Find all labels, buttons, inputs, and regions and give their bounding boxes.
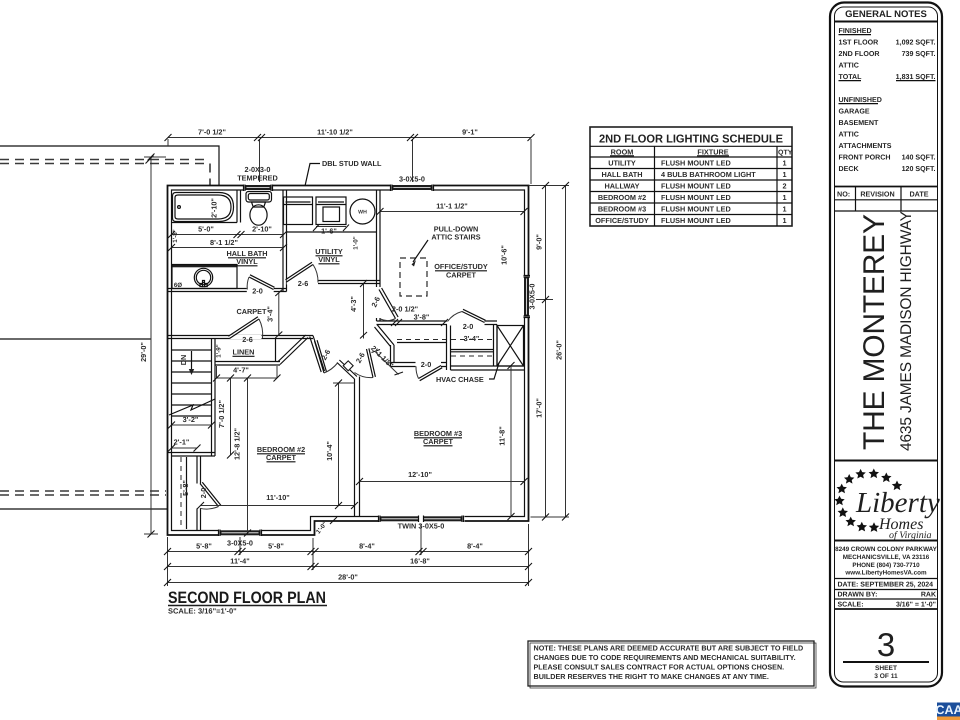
svg-text:2'-1": 2'-1"	[174, 438, 190, 447]
svg-text:3'-4": 3'-4"	[266, 306, 275, 322]
svg-text:140 SQFT.: 140 SQFT.	[902, 154, 936, 162]
general notes header	[835, 9, 938, 22]
svg-text:1: 1	[782, 159, 786, 168]
svg-text:4635 JAMES MADISON HIGHWAY: 4635 JAMES MADISON HIGHWAY	[898, 211, 915, 451]
svg-text:8'-4": 8'-4"	[467, 542, 483, 551]
svg-text:ATTIC: ATTIC	[839, 131, 859, 139]
closet B / chase south wall	[451, 366, 525, 370]
toilet	[246, 192, 272, 226]
text office door dims	[392, 305, 429, 322]
dimension hall 4'-3	[349, 280, 367, 339]
svg-text:2-0: 2-0	[463, 322, 474, 331]
svg-text:UNFINISHED: UNFINISHED	[839, 96, 882, 104]
utility counter edge	[287, 231, 377, 233]
svg-text:1: 1	[782, 216, 786, 225]
svg-text:12'-10": 12'-10"	[408, 470, 432, 479]
door bedroom2 2-6	[315, 340, 338, 373]
window 2-0X3-0 tempered (top wall)	[244, 184, 273, 192]
svg-text:1ST FLOOR: 1ST FLOOR	[839, 39, 879, 47]
text hvac chase with leader	[436, 363, 499, 384]
svg-text:1'-8": 1'-8"	[172, 229, 179, 242]
svg-text:2-6: 2-6	[242, 335, 253, 344]
svg-text:CARPET: CARPET	[446, 271, 477, 280]
svg-text:BEDROOM #3: BEDROOM #3	[598, 205, 646, 214]
svg-text:GENERAL NOTES: GENERAL NOTES	[845, 9, 927, 20]
svg-text:2'-10": 2'-10"	[210, 198, 219, 218]
wall stair south	[168, 453, 216, 457]
wall bedroom divider vertical	[355, 377, 360, 517]
svg-text:WH: WH	[358, 210, 367, 216]
svg-text:www.LibertyHomesVA.com: www.LibertyHomesVA.com	[844, 570, 927, 577]
closet A south wall	[391, 363, 447, 367]
door bedroom3 2-6	[355, 348, 376, 377]
svg-text:CARPET: CARPET	[237, 307, 268, 316]
wall utility south	[318, 281, 380, 284]
svg-text:QTY: QTY	[778, 150, 793, 157]
svg-text:120 SQFT.: 120 SQFT.	[902, 165, 936, 173]
svg-text:11'-10": 11'-10"	[266, 493, 289, 502]
text bedroom 2	[257, 445, 305, 462]
sheet number	[843, 626, 929, 680]
svg-text:FRONT PORCH: FRONT PORCH	[839, 154, 891, 162]
text 2-0X3-0 tempered	[237, 165, 278, 183]
svg-text:BASEMENT: BASEMENT	[839, 119, 879, 127]
note box	[528, 641, 816, 688]
svg-text:GARAGE: GARAGE	[839, 108, 870, 116]
svg-text:9'-1": 9'-1"	[462, 128, 478, 137]
svg-text:2-6: 2-6	[298, 279, 309, 288]
svg-text:CAA: CAA	[935, 703, 960, 717]
svg-text:8'-1 1/2": 8'-1 1/2"	[210, 238, 238, 247]
text bedroom 3	[414, 429, 462, 446]
svg-text:FLUSH MOUNT LED: FLUSH MOUNT LED	[661, 216, 731, 225]
attic stairs dashed box	[400, 258, 427, 296]
svg-text:6Ø: 6Ø	[174, 282, 182, 289]
hvac chase box with X	[497, 326, 524, 367]
liberty homes logo	[834, 461, 940, 542]
svg-text:SCALE: 3/16"=1'-0": SCALE: 3/16"=1'-0"	[168, 607, 237, 616]
project name vertical	[858, 211, 915, 451]
svg-text:10'-4": 10'-4"	[325, 441, 334, 461]
svg-text:7'-0 1/2": 7'-0 1/2"	[198, 128, 226, 137]
text door labels hall	[252, 279, 382, 309]
svg-text:Liberty: Liberty	[855, 487, 940, 519]
closet B shelf and rod	[451, 340, 493, 357]
CAA watermark logo	[935, 703, 960, 720]
exterior wall inner face	[172, 190, 525, 531]
text linen	[216, 335, 255, 358]
svg-text:3-0X5-0: 3-0X5-0	[528, 284, 537, 310]
svg-text:10'-6": 10'-6"	[500, 245, 509, 265]
dimension step 1'-0	[315, 517, 337, 535]
svg-text:1,831 SQFT.: 1,831 SQFT.	[896, 73, 936, 81]
tub platform edge	[172, 222, 238, 224]
svg-text:2'-10": 2'-10"	[252, 225, 272, 234]
lighting schedule table	[590, 127, 793, 226]
svg-text:3'-8": 3'-8"	[414, 313, 430, 322]
door linen 2-6	[228, 317, 262, 339]
svg-text:1,092 SQFT.: 1,092 SQFT.	[896, 39, 936, 47]
svg-text:29'-0": 29'-0"	[139, 342, 148, 362]
svg-text:BEDROOM #2: BEDROOM #2	[598, 193, 646, 202]
svg-text:DBL STUD WALL: DBL STUD WALL	[322, 159, 382, 168]
svg-text:5'-8": 5'-8"	[268, 542, 284, 551]
svg-text:1'-9": 1'-9"	[216, 344, 223, 357]
svg-text:4'-3": 4'-3"	[349, 296, 358, 312]
svg-text:MECHANICSVILLE, VA 23116: MECHANICSVILLE, VA 23116	[843, 554, 930, 561]
svg-text:HALLWAY: HALLWAY	[604, 182, 639, 191]
roof dashed outline upper left	[0, 156, 210, 186]
svg-text:3'-2": 3'-2"	[183, 415, 199, 424]
dimension 1'-6 dryer	[313, 225, 360, 250]
svg-text:ATTIC: ATTIC	[839, 62, 859, 70]
dimension bedroom3 11'-8	[498, 362, 515, 520]
svg-text:FIXTURE: FIXTURE	[697, 148, 728, 157]
svg-text:7'-0 1/2": 7'-0 1/2"	[217, 400, 226, 428]
dimension bath 5'-0 / 2'-10 / 8'-1 1/2	[168, 225, 287, 252]
door utility 2-6	[286, 262, 319, 284]
svg-text:3-0X5-0: 3-0X5-0	[227, 539, 253, 548]
address block	[835, 541, 938, 577]
title block border	[830, 3, 942, 687]
dimension linen 4'-7	[213, 366, 281, 382]
svg-text:THE MONTEREY: THE MONTEREY	[858, 212, 891, 450]
wall jamb notch between bedroom doors	[337, 360, 357, 379]
svg-text:4 BULB BATHROOM LIGHT: 4 BULB BATHROOM LIGHT	[661, 170, 756, 179]
wall stair east	[212, 339, 216, 457]
svg-text:739 SQFT.: 739 SQFT.	[902, 50, 936, 58]
wall hall bath south	[168, 289, 287, 292]
closet A west diagonal wall	[375, 325, 395, 367]
door bottom closet 2-0	[196, 482, 221, 509]
svg-text:LINEN: LINEN	[233, 348, 255, 357]
svg-text:1: 1	[782, 193, 786, 202]
svg-text:FLUSH MOUNT LED: FLUSH MOUNT LED	[661, 193, 731, 202]
svg-text:1: 1	[782, 205, 786, 214]
svg-text:CHANGES DUE TO CODE REQUIREMEN: CHANGES DUE TO CODE REQUIREMENTS AND MEC…	[534, 653, 796, 662]
svg-text:SCALE:: SCALE:	[838, 602, 864, 609]
chase west wall	[494, 325, 498, 367]
date drawn scale rows	[835, 579, 938, 610]
svg-text:REVISION: REVISION	[860, 190, 894, 199]
svg-text:DATE: SEPTEMBER 25, 2024: DATE: SEPTEMBER 25, 2024	[838, 582, 934, 589]
text dbl stud wall with leader	[305, 159, 382, 186]
closet A/B divider wall	[447, 325, 451, 371]
dimension hall 3'-4	[266, 290, 283, 339]
window 3-0X5-0 (bottom left wall)	[219, 529, 262, 537]
svg-text:8'-4": 8'-4"	[359, 542, 375, 551]
door office 2-6	[376, 288, 399, 321]
wall hall diagonal	[310, 336, 325, 373]
dimension 2'-1 1/8 diagonal	[369, 344, 403, 375]
vanity with sink	[172, 265, 238, 289]
svg-text:SECOND FLOOR PLAN: SECOND FLOOR PLAN	[168, 589, 326, 607]
washer	[284, 197, 313, 225]
door hall bath 2-0	[247, 275, 275, 293]
linen closet walls	[215, 335, 308, 365]
dimension 12'-8 1/2 vertical	[233, 375, 252, 537]
svg-text:3 OF 11: 3 OF 11	[874, 673, 898, 680]
svg-text:HALL BATH: HALL BATH	[601, 170, 642, 179]
wall bottom closet east	[197, 456, 201, 531]
stair treads	[172, 350, 212, 416]
wall hall bath / utility divider	[283, 190, 287, 292]
svg-text:8249 CROWN COLONY PARKWAY: 8249 CROWN COLONY PARKWAY	[835, 546, 938, 553]
svg-text:3/16" = 1'-0": 3/16" = 1'-0"	[896, 601, 936, 609]
svg-text:CARPET: CARPET	[266, 453, 297, 462]
dimension right 9'-0 / 17'-0 / 26'-0	[528, 182, 570, 521]
svg-text:1: 1	[782, 170, 786, 179]
svg-text:ATTIC STAIRS: ATTIC STAIRS	[431, 233, 480, 242]
exterior wall outer face	[168, 186, 529, 536]
wall utility / office divider	[377, 190, 381, 321]
roof line upper left	[0, 146, 219, 186]
svg-text:DN: DN	[179, 355, 188, 366]
svg-text:BUILDER RESERVES THE RIGHT TO: BUILDER RESERVES THE RIGHT TO MAKE CHANG…	[534, 672, 769, 681]
svg-text:3-0X5-0: 3-0X5-0	[399, 175, 425, 184]
svg-text:12'-8 1/2": 12'-8 1/2"	[233, 428, 242, 460]
text window labels bottom	[227, 522, 444, 548]
dimension rows below plan	[164, 524, 532, 586]
svg-text:2ND FLOOR LIGHTING SCHEDULE: 2ND FLOOR LIGHTING SCHEDULE	[599, 134, 783, 146]
svg-text:PLEASE CONSULT SALES CONTRACT: PLEASE CONSULT SALES CONTRACT FOR ACTUAL…	[534, 663, 785, 672]
svg-text:TOTAL: TOTAL	[839, 73, 863, 81]
svg-text:NOTE: THESE PLANS ARE DEEMED A: NOTE: THESE PLANS ARE DEEMED ACCURATE BU…	[534, 644, 804, 653]
svg-text:PHONE (804) 730-7710: PHONE (804) 730-7710	[852, 562, 920, 569]
dimension 3'-8 ticks on office wall	[391, 319, 448, 326]
dimension stairs 2'-1	[168, 438, 201, 452]
roof line lower left	[0, 508, 168, 510]
stair DN arrow	[189, 351, 194, 375]
svg-text:SHEET: SHEET	[875, 665, 897, 672]
svg-text:TWIN 3-0X5-0: TWIN 3-0X5-0	[398, 522, 445, 531]
window 3-0X5-0 (right wall)	[523, 276, 531, 318]
svg-text:RAK: RAK	[921, 592, 936, 599]
svg-text:DECK: DECK	[839, 165, 860, 173]
roof dashed outline lower left	[0, 491, 166, 495]
svg-text:NO:: NO:	[837, 190, 850, 199]
revision header row	[835, 187, 938, 212]
svg-text:11'-4": 11'-4"	[230, 557, 249, 566]
dimension left 29ft	[139, 154, 166, 538]
svg-text:DATE: DATE	[909, 190, 928, 199]
svg-text:5'-0": 5'-0"	[198, 225, 214, 234]
dimension office 11'-1 1/2	[377, 202, 528, 216]
svg-text:1'-0": 1'-0"	[353, 236, 360, 249]
closet A rod line	[397, 342, 446, 344]
svg-text:FINISHED: FINISHED	[839, 27, 872, 35]
closet rod dashed (bottom-left closet)	[180, 457, 182, 529]
svg-text:11'-1 1/2": 11'-1 1/2"	[436, 202, 468, 211]
svg-text:4'-7": 4'-7"	[233, 366, 249, 375]
svg-text:16'-8": 16'-8"	[410, 557, 430, 566]
general notes content	[839, 27, 936, 173]
window twin 3-0X5-0 (bottom right wall)	[379, 515, 465, 523]
svg-text:28'-0": 28'-0"	[338, 573, 358, 582]
svg-text:2ND FLOOR: 2ND FLOOR	[839, 50, 880, 58]
svg-text:2-0: 2-0	[252, 287, 263, 296]
closet A shelf dashed	[397, 339, 446, 341]
door closet A 2-0	[416, 362, 442, 381]
text closet doors	[421, 322, 480, 369]
svg-text:2-0: 2-0	[421, 360, 432, 369]
svg-text:FLUSH MOUNT LED: FLUSH MOUNT LED	[661, 182, 731, 191]
text closet 5'-8 and 2-0	[181, 480, 208, 498]
text hall bath	[226, 249, 267, 266]
dryer	[316, 197, 346, 225]
wall hallway south / linen north	[168, 336, 314, 339]
dimension bedroom3 12'-10	[356, 470, 528, 485]
svg-text:of Virginia: of Virginia	[889, 530, 932, 541]
svg-text:HVAC CHASE: HVAC CHASE	[436, 375, 484, 384]
svg-text:VINYL: VINYL	[318, 255, 340, 264]
window 3-0X5-0 (top wall)	[391, 184, 434, 192]
svg-text:UTILITY: UTILITY	[608, 159, 636, 168]
second floor plan title	[168, 589, 327, 616]
svg-text:5'-8": 5'-8"	[196, 542, 212, 551]
svg-text:2: 2	[782, 182, 786, 191]
text utility room	[315, 247, 343, 264]
dimension bedroom2 10'-4	[325, 380, 355, 510]
svg-text:17'-0": 17'-0"	[535, 398, 544, 418]
svg-text:1'-6": 1'-6"	[321, 227, 337, 236]
svg-text:OFFICE/STUDY: OFFICE/STUDY	[595, 216, 649, 225]
svg-text:FLUSH MOUNT LED: FLUSH MOUNT LED	[661, 205, 731, 214]
svg-text:ROOM: ROOM	[611, 148, 634, 157]
text pull-down attic stairs with leader	[412, 225, 481, 267]
wall office south	[377, 321, 498, 325]
bathtub	[173, 193, 234, 222]
svg-text:3: 3	[877, 626, 895, 663]
stair break line	[169, 399, 215, 415]
wall tub alcove right	[237, 190, 241, 223]
water heater	[350, 199, 375, 224]
svg-text:ATTACHMENTS: ATTACHMENTS	[839, 142, 892, 150]
svg-text:FLUSH MOUNT LED: FLUSH MOUNT LED	[661, 159, 731, 168]
svg-text:5'-8": 5'-8"	[181, 480, 190, 496]
svg-text:VINYL: VINYL	[236, 257, 258, 266]
svg-text:TEMPERED: TEMPERED	[237, 174, 278, 183]
dimension top line 28ft overall	[165, 128, 535, 185]
svg-text:CARPET: CARPET	[423, 437, 454, 446]
dimension 7'-0 1/2 vertical	[217, 375, 234, 459]
svg-text:9'-0": 9'-0"	[535, 234, 544, 250]
svg-text:DRAWN BY:: DRAWN BY:	[838, 592, 878, 599]
svg-text:26'-0": 26'-0"	[555, 340, 564, 360]
svg-text:11'-10 1/2": 11'-10 1/2"	[317, 128, 353, 137]
dimension bedroom2 11'-10	[197, 493, 358, 509]
text bedroom door labels	[319, 348, 366, 365]
svg-text:11'-8": 11'-8"	[498, 426, 507, 445]
svg-text:2-0: 2-0	[199, 488, 208, 499]
text office/study	[434, 262, 488, 280]
door closet B 2-0	[447, 309, 485, 325]
svg-text:3'-4": 3'-4"	[464, 334, 480, 343]
mid left horizontal line	[0, 338, 151, 340]
dimension stairs 3'-2	[168, 415, 215, 429]
